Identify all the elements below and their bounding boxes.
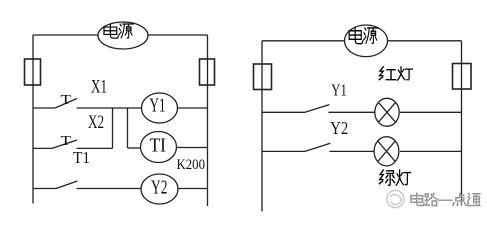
svg-text:K200: K200 <box>177 157 206 173</box>
svg-text:Y2: Y2 <box>330 118 348 138</box>
svg-text:X1: X1 <box>91 76 107 97</box>
svg-text:T: T <box>61 134 72 149</box>
svg-text:T1: T1 <box>73 148 90 167</box>
svg-text:Y1: Y1 <box>150 94 166 116</box>
svg-text:TI: TI <box>150 135 167 156</box>
svg-text:T: T <box>61 93 72 108</box>
svg-text:Y1: Y1 <box>331 81 347 100</box>
svg-text:X2: X2 <box>88 112 104 133</box>
svg-text:Y2: Y2 <box>151 177 168 199</box>
